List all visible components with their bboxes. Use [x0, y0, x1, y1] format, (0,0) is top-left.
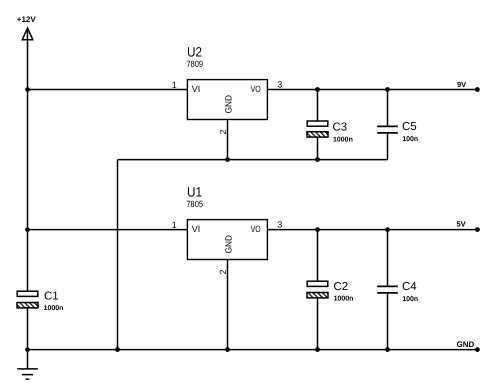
wire: U2 GND pin down to mid rail: [227, 120, 229, 160]
wire: 9V rail left segment to U2 VI: [28, 89, 188, 91]
wire: vertical from mid rail down to GND rail: [117, 160, 119, 350]
svg-text:VO: VO: [251, 84, 261, 94]
svg-text:C4: C4: [402, 281, 417, 293]
svg-text:C1: C1: [44, 291, 59, 303]
svg-text:+12V: +12V: [17, 15, 37, 24]
svg-text:GND: GND: [457, 340, 475, 349]
svg-text:GND: GND: [224, 95, 234, 114]
C2 negative plate: [307, 293, 328, 298]
node: GND rail / U1 GND: [225, 347, 230, 352]
svg-text:VI: VI: [192, 224, 201, 234]
svg-text:100n: 100n: [402, 296, 418, 303]
svg-text:3: 3: [277, 80, 282, 90]
svg-text:1: 1: [172, 220, 177, 230]
C1 negative plate: [17, 303, 38, 308]
svg-text:9V: 9V: [457, 80, 466, 89]
svg-text:U1: U1: [187, 185, 202, 200]
capacitor C1 1000n (polarized): [17, 291, 63, 313]
svg-text:C3: C3: [333, 121, 348, 133]
capacitor C2 1000n (polarized): [307, 281, 353, 303]
capacitor C5 100n: [377, 121, 418, 143]
ground symbol: [17, 369, 38, 379]
node: GND rail / mid return: [115, 347, 120, 352]
wire: C3 top stub: [317, 90, 319, 122]
svg-text:C2: C2: [334, 281, 349, 293]
node: GND rail / C4: [385, 347, 390, 352]
wire: C5 top stub: [387, 90, 389, 127]
ground symbol stub: [27, 350, 29, 369]
svg-text:2: 2: [218, 129, 228, 134]
svg-text:1000n: 1000n: [333, 137, 353, 144]
supply symbol +12V arrow: [22, 28, 33, 40]
node: 12V rail / 9V branch: [25, 87, 30, 92]
wire: C4 top stub: [387, 230, 389, 287]
C1 positive plate: [17, 291, 38, 296]
svg-text:1000n: 1000n: [334, 295, 354, 302]
node: 9V rail end: [475, 87, 480, 92]
wire: mid ground return rail: [118, 159, 388, 161]
wire: C2 bottom stub: [317, 298, 319, 350]
svg-text:GND: GND: [224, 235, 234, 254]
wire: GND bottom rail: [28, 349, 478, 351]
svg-text:1: 1: [172, 80, 177, 90]
ground bar 2: [22, 374, 33, 376]
node: GND rail / left rail: [25, 347, 30, 352]
node: mid rail / U2 GND: [225, 157, 230, 162]
node: GND rail / C2: [315, 347, 320, 352]
C3 positive plate: [307, 121, 328, 126]
svg-text:U2: U2: [187, 45, 202, 60]
svg-text:C5: C5: [402, 121, 417, 133]
C2 positive plate: [307, 281, 328, 286]
ground bar 3: [26, 378, 30, 380]
svg-text:VI: VI: [192, 84, 201, 94]
capacitor C3 1000n (polarized): [307, 121, 353, 144]
svg-text:1000n: 1000n: [44, 305, 64, 312]
node: GND rail end: [475, 347, 480, 352]
node: mid rail / C3: [315, 157, 320, 162]
C3 negative plate: [307, 132, 328, 137]
wire: U1 GND pin down to GND rail: [227, 260, 229, 350]
node: 5V rail / C4: [385, 227, 390, 232]
U2 body: [187, 80, 267, 120]
wire: 5V rail from U1 VO to right end: [267, 229, 477, 231]
wire: left rail from C1 bottom to GND rail: [27, 308, 29, 350]
wire: 5V rail left segment to U1 VI: [28, 229, 188, 231]
U1 body: [187, 220, 267, 260]
ground bar 1: [17, 368, 38, 370]
wire: C2 top stub: [317, 230, 319, 282]
node: 12V rail / 5V branch: [25, 227, 30, 232]
node: 9V rail / C3: [315, 87, 320, 92]
svg-text:7805: 7805: [186, 199, 203, 209]
node: 5V rail / C2: [315, 227, 320, 232]
node: 9V rail / C5: [385, 87, 390, 92]
svg-text:7809: 7809: [186, 59, 203, 69]
svg-text:100n: 100n: [402, 136, 418, 143]
wire: C3 bottom stub: [317, 137, 319, 160]
capacitor C4 100n: [377, 281, 418, 303]
C5 plates: [377, 126, 398, 132]
svg-text:5V: 5V: [457, 220, 466, 229]
svg-text:2: 2: [218, 269, 228, 274]
wire: 9V rail from U2 VO to right end: [267, 89, 477, 91]
svg-text:3: 3: [277, 220, 282, 230]
svg-text:VO: VO: [251, 224, 261, 234]
wire: C5 bottom stub to mid rail: [387, 133, 389, 160]
regulator U1 7805 box: [186, 185, 267, 260]
C4 plates: [377, 286, 398, 293]
wire: left rail from +12V arrow down to C1 top: [27, 40, 29, 291]
regulator U2 7809 box: [186, 45, 267, 120]
wire: C4 bottom stub: [387, 293, 389, 350]
node: 5V rail end: [475, 227, 480, 232]
